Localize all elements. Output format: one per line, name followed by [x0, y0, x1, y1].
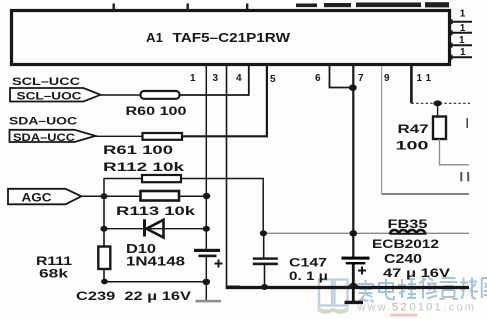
- svg-text:R47: R47: [398, 122, 429, 136]
- svg-text:4: 4: [236, 73, 242, 84]
- wire R47 top lead: [437, 103, 439, 116]
- svg-text:R61 100: R61 100: [103, 143, 173, 157]
- svg-text:68k: 68k: [39, 267, 68, 281]
- wire R47 bottom lead and corner right: [440, 139, 470, 165]
- svg-text:6: 6: [315, 73, 321, 84]
- svg-text:C240: C240: [384, 252, 422, 266]
- svg-text:0101: 0101: [410, 302, 443, 314]
- wire SCL row from tag to R60: [99, 94, 141, 96]
- wire pin11 dashed horizontal: [411, 102, 470, 104]
- svg-text:52: 52: [392, 302, 409, 314]
- svg-text:AGC: AGC: [22, 191, 52, 205]
- svg-text:1: 1: [460, 23, 466, 34]
- wire pin9 horizontal to right: [382, 193, 469, 195]
- svg-text:1: 1: [460, 47, 466, 58]
- resistor R61 body: [143, 133, 183, 140]
- wire AGC row: [81, 195, 140, 197]
- svg-text:SDA–UOC: SDA–UOC: [9, 115, 77, 127]
- wire pin6 L to pin7: [330, 66, 353, 88]
- wire FB35 row gray: [263, 232, 469, 234]
- ferrite bead FB35 symbol: [390, 230, 425, 234]
- svg-text:TAF5–C21P1RW: TAF5–C21P1RW: [173, 30, 291, 45]
- node dot bottom left: [101, 279, 108, 285]
- svg-text:C239 22 μ 16V: C239 22 μ 16V: [76, 289, 191, 303]
- wire pin4 L to SCL row: [180, 66, 249, 95]
- watermark book logo: [318, 280, 349, 314]
- wire R112 row: corner left rail to body to C147 rail corner: [104, 179, 142, 197]
- svg-text:SDA–UCC: SDA–UCC: [13, 132, 75, 144]
- red fragment under 520: [390, 314, 417, 317]
- node dot FB35 left: [260, 230, 267, 236]
- wire pin7 rail upper: [352, 66, 354, 257]
- svg-text:100: 100: [396, 138, 430, 152]
- ground bus: [226, 286, 469, 289]
- resistor R111 body: [98, 247, 110, 270]
- diode D10 symbol: [145, 219, 164, 237]
- svg-text:SCL–UOC: SCL–UOC: [17, 91, 82, 103]
- wire AGC bottom row: [104, 281, 206, 283]
- net tag SDA-UCC: [10, 130, 96, 144]
- node junction dot R47 top: [433, 100, 441, 106]
- capacitor C147: [253, 257, 278, 265]
- capacitor C239 polarized: [194, 249, 223, 268]
- svg-text:C147: C147: [289, 256, 327, 270]
- svg-text:5: 5: [270, 74, 276, 85]
- svg-text:1: 1: [460, 9, 466, 20]
- node dot D10 right: [203, 226, 210, 232]
- net tag AGC: [8, 189, 81, 205]
- capacitor C240 polarized: [342, 257, 370, 275]
- resistor R112 body: [142, 175, 181, 182]
- resistor R60 body: [141, 91, 180, 99]
- wire pin5 L to SDA row: [182, 66, 267, 136]
- node dot AGC left rail: [100, 193, 107, 199]
- svg-text:3: 3: [213, 73, 219, 84]
- wire R113 right lead: [179, 195, 206, 197]
- node dot D10 left: [100, 226, 107, 232]
- svg-text:R60 100: R60 100: [126, 104, 187, 118]
- left rail x104 down: [103, 196, 105, 247]
- svg-text:0. 1 μ: 0. 1 μ: [289, 269, 328, 283]
- svg-text:A1: A1: [146, 30, 163, 45]
- capacitor plates at right edge: [461, 172, 468, 181]
- net tag SCL-UOC: [10, 88, 101, 103]
- node dot bottom right C239: [203, 279, 211, 285]
- node dot FB35 pin7: [350, 230, 358, 236]
- svg-text:11: 11: [417, 73, 436, 84]
- resistor R113 body: [141, 191, 180, 201]
- svg-text:1: 1: [190, 73, 196, 84]
- wire pin7 rail lower to ground: [352, 263, 355, 302]
- svg-text:R112 10k: R112 10k: [103, 160, 184, 174]
- wire pin3 rail: [227, 66, 241, 286]
- resistor R47 body: [433, 117, 446, 140]
- node dot C147 bottom on bus: [261, 284, 268, 290]
- ground bar under C240: [345, 301, 364, 304]
- ground bar gray under C239: [196, 300, 222, 303]
- svg-text:SCL–UCC: SCL–UCC: [12, 76, 80, 88]
- node blob on bus at pin7: [348, 282, 359, 286]
- wire R112 right to down rail x263: [181, 179, 263, 234]
- svg-text:7: 7: [358, 73, 364, 84]
- svg-text:9: 9: [384, 73, 390, 84]
- IC U1 box A1 TAF5-C21P1RW: [12, 11, 450, 65]
- svg-text:47 μ 16V: 47 μ 16V: [383, 266, 450, 280]
- node dot R113 right on pin1 rail: [203, 193, 211, 199]
- wire pin1 rail upper: [205, 66, 207, 249]
- svg-text:FB35: FB35: [388, 217, 428, 231]
- wire pin9 rail gray: [381, 66, 383, 193]
- svg-text:1: 1: [459, 35, 465, 46]
- svg-text:R113 10k: R113 10k: [116, 204, 195, 218]
- node junction pin6-pin7 dot: [349, 84, 357, 91]
- watermark url www.520101.com: [357, 302, 477, 314]
- wire D10 row: [104, 228, 206, 230]
- wire pin11 rail: [410, 66, 413, 103]
- partial component stroke right edge: [466, 118, 468, 128]
- svg-text:.com: .com: [444, 302, 477, 314]
- IC right side pin stubs with "1" labels: [448, 9, 472, 60]
- watermark text 家电维修资料网 (approximated glyph strokes): [358, 278, 487, 303]
- wire R111 bottom: [103, 269, 105, 282]
- wire SDA row from tag to R61: [94, 135, 143, 137]
- C147 rail pieces: [263, 233, 265, 257]
- svg-text:ECB2012: ECB2012: [372, 237, 439, 251]
- svg-text:1N4148: 1N4148: [126, 255, 185, 269]
- dashes above IC top edge: [113, 2, 450, 10]
- wire pin1 rail lower: [205, 257, 207, 301]
